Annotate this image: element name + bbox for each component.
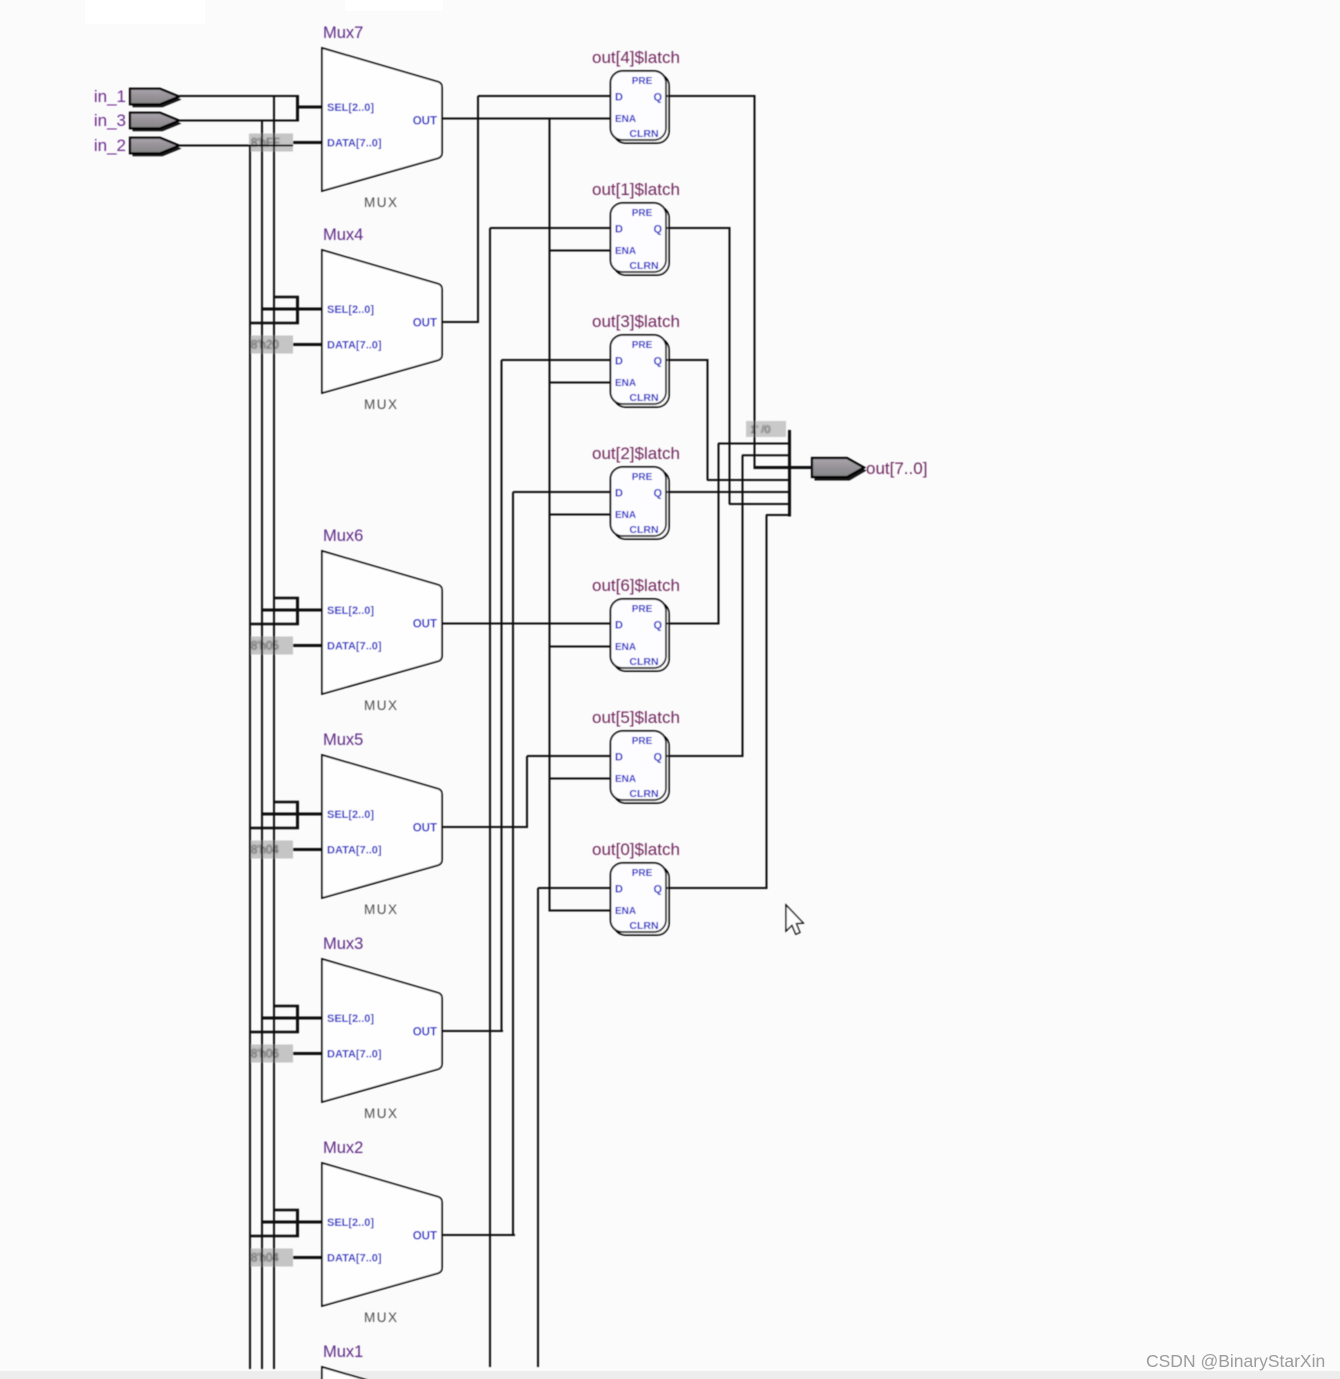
wire out[3].D input (502, 359, 612, 361)
svg-text:D: D (615, 224, 623, 236)
svg-text:D: D (615, 752, 623, 764)
wire out[6].Q (666, 623, 720, 625)
svg-text:DATA[7..0]: DATA[7..0] (327, 340, 382, 352)
svg-text:Mux2: Mux2 (323, 1139, 363, 1157)
wire Mux6 sel fork bottom (250, 623, 299, 626)
svg-text:CLRN: CLRN (629, 656, 658, 668)
svg-text:MUX: MUX (364, 1106, 399, 1121)
wire Mux6 sel fork top (274, 597, 299, 600)
svg-text:D: D (615, 488, 623, 500)
svg-text:out[5]$latch: out[5]$latch (592, 708, 680, 727)
wire Mux3 DATA stub (293, 1052, 322, 1055)
wire bus row bit0 (766, 514, 791, 516)
wire Mux5.OUT (442, 826, 528, 828)
svg-text:Q: Q (653, 620, 662, 632)
output pin out[7..0] (812, 458, 927, 481)
latch out[4]$latch (592, 48, 680, 143)
wire out[0].D input (538, 887, 611, 889)
svg-text:out[4]$latch: out[4]$latch (592, 48, 680, 67)
svg-text:SEL[2..0]: SEL[2..0] (327, 1013, 374, 1025)
wire bus row bit4 to out pin (754, 466, 814, 469)
latch out[5]$latch (592, 708, 680, 803)
svg-text:SEL[2..0]: SEL[2..0] (327, 304, 374, 316)
wire out[2].ENA stub (550, 514, 612, 516)
svg-text:DATA[7..0]: DATA[7..0] (327, 641, 382, 653)
value label 8'h20 (249, 336, 293, 354)
mux Mux4 (322, 226, 442, 412)
svg-text:Q: Q (653, 92, 662, 104)
wire Mux2 sel bar (296, 1209, 299, 1237)
wire Mux4 SEL stub (262, 308, 322, 311)
svg-text:D: D (615, 620, 623, 632)
svg-text:MUX: MUX (364, 902, 399, 917)
svg-text:out[0]$latch: out[0]$latch (592, 840, 680, 859)
wire bus row bit3 (707, 479, 791, 481)
svg-text:ENA: ENA (615, 246, 636, 257)
wire Mux6 DATA stub (293, 644, 322, 647)
wire Mux5 sel fork top (274, 801, 299, 804)
wire Mux7.OUT to latch ENA line (442, 118, 611, 120)
svg-text:OUT: OUT (413, 1231, 437, 1243)
svg-text:Mux5: Mux5 (323, 731, 363, 749)
wire out[5].D input (527, 755, 611, 757)
wire out[2].Q to bus (666, 491, 791, 493)
wire out[3].Q (666, 359, 709, 361)
svg-text:Q: Q (653, 488, 662, 500)
svg-text:SEL[2..0]: SEL[2..0] (327, 605, 374, 617)
background white patch top-left (85, 0, 205, 24)
svg-text:out[3]$latch: out[3]$latch (592, 312, 680, 331)
mux Mux7 (322, 24, 442, 210)
wire Mux2 SEL stub (262, 1221, 322, 1224)
svg-text:D: D (615, 92, 623, 104)
svg-text:PRE: PRE (632, 604, 653, 615)
value label 8'hFF (249, 134, 293, 152)
mux Mux1 (322, 1343, 442, 1379)
svg-text:OUT: OUT (413, 116, 437, 128)
wire vertical feed out[0].D (537, 888, 539, 1367)
wire out[1].ENA stub (550, 250, 612, 252)
wire Mux6 SEL stub (262, 609, 322, 612)
svg-text:ENA: ENA (615, 642, 636, 653)
latch out[3]$latch (592, 312, 680, 407)
value label 1'h0 (746, 421, 786, 437)
wire Mux7 DATA stub (293, 141, 322, 144)
wire Mux6.OUT to out[6].D (442, 623, 611, 625)
input pin in_2 (94, 136, 182, 156)
wire out[4].D input (478, 95, 611, 97)
wire Mux5 SEL stub (262, 813, 322, 816)
svg-text:MUX: MUX (364, 195, 399, 210)
wire in_2 to select rail (179, 145, 293, 147)
svg-text:CSDN @BinaryStarXin: CSDN @BinaryStarXin (1146, 1351, 1325, 1371)
bottom window strip (0, 1371, 1340, 1379)
svg-text:MUX: MUX (364, 1310, 399, 1325)
wire Mux2.OUT (442, 1234, 515, 1236)
svg-text:ENA: ENA (615, 906, 636, 917)
svg-text:Q: Q (653, 224, 662, 236)
wire Mux7 sel bar (296, 95, 299, 122)
svg-text:in_1: in_1 (94, 87, 126, 106)
wire Mux5 sel fork bottom (250, 827, 299, 830)
value label 8'h04 (249, 841, 293, 859)
svg-text:out[1]$latch: out[1]$latch (592, 180, 680, 199)
value label 8'h05 (249, 637, 293, 655)
svg-text:Mux3: Mux3 (323, 935, 363, 953)
svg-text:SEL[2..0]: SEL[2..0] (327, 809, 374, 821)
wire out[6].ENA stub (550, 646, 612, 648)
svg-text:in_2: in_2 (94, 136, 126, 155)
wire vertical out[4].Q down (754, 96, 756, 468)
svg-text:DATA[7..0]: DATA[7..0] (327, 138, 382, 150)
wire Mux7 SEL stub (296, 106, 322, 109)
svg-text:PRE: PRE (632, 472, 653, 483)
latch out[1]$latch (592, 180, 680, 275)
svg-text:D: D (615, 884, 623, 896)
wire in_3 to Mux7 sel join (179, 120, 299, 122)
svg-text:MUX: MUX (364, 698, 399, 713)
svg-text:out[6]$latch: out[6]$latch (592, 576, 680, 595)
svg-text:Q: Q (653, 356, 662, 368)
wire Mux5 sel bar (296, 801, 299, 829)
wire vertical out[0].Q up (766, 515, 768, 888)
wire Mux3 sel bar (296, 1005, 299, 1033)
wire ENA distribution vertical (549, 119, 551, 912)
svg-text:ENA: ENA (615, 510, 636, 521)
wire out[5].ENA stub (550, 778, 612, 780)
svg-text:OUT: OUT (413, 823, 437, 835)
wire out[2].D input (513, 491, 611, 493)
wire bus row bit6 (718, 443, 791, 445)
wire Mux5 DATA stub (293, 848, 322, 851)
wire Mux3 sel fork top (274, 1005, 299, 1008)
latch out[6]$latch (592, 576, 680, 671)
svg-text:Mux6: Mux6 (323, 527, 363, 545)
svg-text:CLRN: CLRN (629, 920, 658, 932)
wire Mux3.OUT (442, 1030, 503, 1032)
svg-text:CLRN: CLRN (629, 788, 658, 800)
svg-text:Mux4: Mux4 (323, 226, 363, 244)
svg-text:DATA[7..0]: DATA[7..0] (327, 1253, 382, 1265)
svg-text:Mux1: Mux1 (323, 1343, 363, 1361)
svg-text:Mux7: Mux7 (323, 24, 363, 42)
wire bus row bit5 (742, 454, 791, 456)
wire Mux4 sel bar (296, 296, 299, 324)
svg-text:ENA: ENA (615, 378, 636, 389)
mouse cursor (786, 905, 803, 934)
wire out[4].Q (666, 95, 756, 97)
wire Mux4 sel fork bottom (250, 322, 299, 325)
value label 8'h04 (249, 1249, 293, 1267)
svg-text:DATA[7..0]: DATA[7..0] (327, 845, 382, 857)
input pin in_3 (94, 111, 182, 131)
wire vertical out[6].Q up (718, 444, 720, 624)
latch out[0]$latch (592, 840, 680, 935)
wire Mux3 SEL stub (262, 1017, 322, 1020)
mux Mux2 (322, 1139, 442, 1325)
latch out[2]$latch (592, 444, 680, 539)
wire select rail B x=262 (261, 121, 263, 1370)
wire Mux2 DATA stub (293, 1256, 322, 1259)
wire bus row bit1 (729, 503, 791, 505)
svg-text:CLRN: CLRN (629, 260, 658, 272)
wire vertical Mux3.OUT to out[3].D (501, 360, 503, 1031)
value label 8'h06 (249, 1045, 293, 1063)
wire Mux3 sel fork bottom (250, 1031, 299, 1034)
wire Mux4.OUT (442, 321, 479, 323)
svg-text:PRE: PRE (632, 868, 653, 879)
svg-text:ENA: ENA (615, 774, 636, 785)
svg-text:PRE: PRE (632, 76, 653, 87)
wire select rail C x=250 (249, 146, 251, 1370)
wire select rail A x=274 (273, 96, 275, 1369)
svg-text:out[2]$latch: out[2]$latch (592, 444, 680, 463)
svg-text:8'hFF: 8'hFF (251, 138, 280, 150)
svg-text:CLRN: CLRN (629, 524, 658, 536)
wire vertical Mux2.OUT to out[2].D (512, 492, 514, 1235)
wire Mux4 DATA stub (293, 343, 322, 346)
svg-text:Q: Q (653, 752, 662, 764)
svg-text:in_3: in_3 (94, 111, 126, 130)
svg-text:OUT: OUT (413, 318, 437, 330)
wire vertical out[3].Q down (707, 360, 709, 480)
wire Mux6 sel bar (296, 597, 299, 625)
svg-text:1' /0: 1' /0 (750, 424, 770, 436)
wire out[0].ENA stub (550, 910, 612, 912)
wire vertical Mux4.OUT to out[4].D (477, 96, 479, 322)
svg-text:SEL[2..0]: SEL[2..0] (327, 102, 374, 114)
svg-text:out[7..0]: out[7..0] (866, 459, 927, 478)
svg-text:DATA[7..0]: DATA[7..0] (327, 1049, 382, 1061)
svg-text:ENA: ENA (615, 114, 636, 125)
wire out[1].D input (490, 227, 611, 229)
wire vertical out[1].Q down (729, 228, 731, 504)
wire in_1 to Mux7 sel join (179, 95, 299, 97)
wire vertical out[5].Q up (742, 455, 744, 756)
svg-text:8'h04: 8'h04 (251, 845, 279, 857)
wire out[5].Q (666, 755, 744, 757)
background white patch above Mux7 (345, 0, 443, 11)
svg-text:Q: Q (653, 884, 662, 896)
mux Mux6 (322, 527, 442, 713)
svg-text:D: D (615, 356, 623, 368)
svg-text:PRE: PRE (632, 208, 653, 219)
mux Mux3 (322, 935, 442, 1121)
wire vertical feed out[1].D (489, 228, 491, 1367)
wire out[0].Q (666, 887, 768, 889)
svg-text:OUT: OUT (413, 619, 437, 631)
svg-text:PRE: PRE (632, 340, 653, 351)
wire out[3].ENA stub (550, 382, 612, 384)
svg-text:MUX: MUX (364, 397, 399, 412)
wire Mux2 sel fork bottom (250, 1235, 299, 1238)
svg-text:CLRN: CLRN (629, 392, 658, 404)
svg-text:CLRN: CLRN (629, 128, 658, 140)
input pin in_1 (94, 87, 182, 107)
wire vertical Mux5.OUT to out[5].D (526, 756, 528, 827)
svg-text:SEL[2..0]: SEL[2..0] (327, 1217, 374, 1229)
wire out[1].Q (666, 227, 731, 229)
wire Mux4 sel fork top (274, 296, 299, 299)
wire Mux2 sel fork top (274, 1209, 299, 1212)
mux Mux5 (322, 731, 442, 917)
wire output bus vertical (788, 430, 791, 517)
svg-text:OUT: OUT (413, 1027, 437, 1039)
svg-text:PRE: PRE (632, 736, 653, 747)
svg-text:8'h04: 8'h04 (251, 1253, 279, 1265)
